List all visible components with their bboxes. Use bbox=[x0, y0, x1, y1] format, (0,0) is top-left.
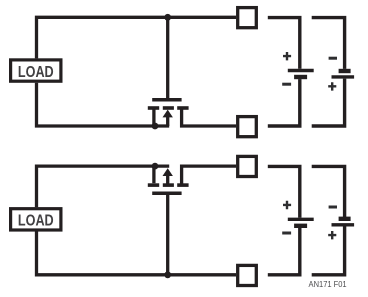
label: B3 plus bbox=[283, 201, 291, 209]
transistor Q2 channel segment body bbox=[163, 183, 174, 187]
label: B2 minus bbox=[329, 57, 337, 60]
transistor Q1 gate bar bbox=[152, 98, 181, 102]
transistor Q1 channel segment body bbox=[163, 106, 174, 110]
junction: gate tap on bottom rail bbox=[164, 271, 171, 278]
svg-text:AN171 F01: AN171 F01 bbox=[309, 280, 347, 289]
transistor Q1 channel segment source bbox=[148, 106, 159, 110]
battery B3 positive plate bbox=[288, 218, 314, 221]
transistor Q2 body arrow shaft bbox=[166, 176, 169, 184]
transistor Q2 source lead bbox=[152, 166, 155, 183]
transistor Q1 body arrow head bbox=[163, 110, 173, 118]
transistor Q1 channel segment drain bbox=[177, 106, 188, 110]
wire: battery B1 positive terminal bbox=[268, 18, 300, 69]
wire: battery B3 negative terminal bbox=[268, 228, 300, 275]
connector J4 (circuit2 bottom square) bbox=[238, 265, 257, 285]
connector J3 (circuit2 top square) bbox=[238, 156, 257, 176]
transistor Q2 channel segment drain bbox=[177, 183, 188, 187]
wire: battery B1 negative terminal bbox=[268, 79, 300, 126]
battery B3 negative plate bbox=[294, 224, 307, 228]
junction: Q2 source-body tie bbox=[152, 163, 159, 170]
wire: Q1 drain to connector J2 bbox=[182, 109, 236, 126]
wire: circuit1 load bottom to Q1 source bbox=[37, 83, 170, 126]
label: B4 plus bbox=[328, 231, 336, 239]
transistor Q1 source lead bbox=[152, 109, 155, 126]
wire: Q2 drain to connector J3 bbox=[182, 166, 236, 184]
wire: circuit2 load top to Q2 source bbox=[37, 166, 170, 207]
battery B1 negative plate bbox=[294, 75, 307, 79]
label: B3 minus bbox=[282, 232, 291, 235]
connector J1 (circuit1 top square) bbox=[238, 8, 257, 28]
battery B4 positive plate bbox=[332, 223, 355, 226]
transistor Q1 body arrow shaft bbox=[166, 116, 169, 126]
junction: Q1 source-body tie bbox=[152, 123, 159, 130]
wire: Q1 gate to top rail bbox=[166, 17, 169, 98]
battery B4 negative plate bbox=[339, 217, 351, 221]
transistor Q2 gate bar bbox=[152, 192, 181, 196]
load LOAD (circuit 1) bbox=[11, 60, 61, 81]
battery B2 negative plate bbox=[339, 69, 351, 73]
wire: Q2 gate to bottom rail bbox=[166, 195, 169, 275]
label: B1 plus bbox=[283, 52, 291, 60]
wire: battery B4 bottom terminal bbox=[312, 227, 345, 275]
junction: gate tap on top rail bbox=[164, 14, 171, 21]
wire: battery B2 top terminal bbox=[312, 18, 345, 69]
wire: battery B3 positive terminal bbox=[268, 166, 300, 217]
svg-text:LOAD: LOAD bbox=[18, 64, 54, 82]
connector J2 (circuit1 bottom square) bbox=[238, 117, 257, 137]
battery B2 positive plate bbox=[332, 75, 355, 78]
transistor Q2 channel segment source bbox=[148, 183, 159, 187]
wire: battery B2 bottom terminal bbox=[312, 79, 345, 126]
label: B4 minus bbox=[329, 206, 337, 209]
wire: battery B4 top terminal bbox=[312, 166, 345, 217]
wire: circuit1 load top to top rail bbox=[37, 17, 237, 58]
label: B2 plus bbox=[328, 82, 336, 90]
load LOAD (circuit 2) bbox=[11, 209, 61, 230]
wire: circuit2 load bottom rail bbox=[37, 232, 237, 275]
svg-text:LOAD: LOAD bbox=[18, 212, 54, 230]
label: B1 minus bbox=[282, 83, 291, 86]
battery B1 positive plate bbox=[288, 69, 314, 72]
transistor Q2 body arrow head bbox=[163, 168, 173, 176]
